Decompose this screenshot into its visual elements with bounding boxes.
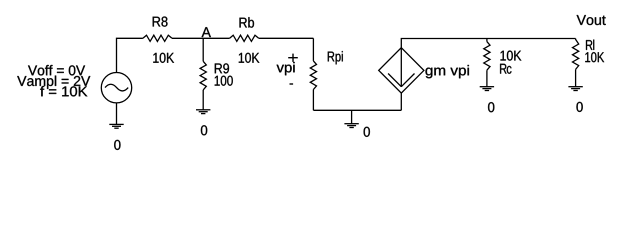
wire: G1 top up and right along top rail to Rl bbox=[401, 39, 575, 48]
resistor Rl bbox=[573, 39, 579, 70]
ground (below Rl) bbox=[568, 87, 582, 91]
wire: Rpi top lead bbox=[312, 38, 314, 61]
wire: node A down to R9 bbox=[202, 38, 204, 61]
wire: bottom rail Rpi to G1 bbox=[313, 109, 401, 111]
resistor Rb bbox=[230, 35, 259, 41]
ground (bottom rail) bbox=[344, 110, 358, 127]
label Rpi bbox=[328, 51, 343, 64]
value 10K (Rb) bbox=[239, 53, 260, 63]
voltage source V1 (sine source) bbox=[101, 73, 131, 103]
polarity label - (vpi) bbox=[290, 83, 294, 85]
wire: R9 to ground bbox=[202, 90, 204, 110]
net label 0 (Rc ground) bbox=[488, 102, 494, 112]
ground (below source V1) bbox=[109, 124, 123, 128]
node label vpi bbox=[277, 62, 295, 75]
label Rl bbox=[586, 40, 594, 50]
resistor Rpi bbox=[310, 61, 316, 90]
net label 0 (source ground) bbox=[114, 140, 120, 150]
resistor R9 bbox=[200, 61, 206, 90]
label R9 bbox=[215, 63, 229, 73]
resistor Rc bbox=[484, 42, 490, 71]
value 10K (R8) bbox=[153, 53, 174, 63]
value 10K (Rc) bbox=[501, 51, 522, 61]
label Rb bbox=[240, 17, 255, 27]
net label 0 (bottom rail ground) bbox=[364, 127, 370, 137]
node label Vout bbox=[577, 15, 606, 25]
wire: Rpi bottom lead to bottom rail bbox=[312, 90, 314, 111]
wire: Rc top lead bbox=[486, 39, 488, 42]
wire: Rc bottom lead to ground bbox=[486, 70, 488, 87]
label R8 bbox=[153, 17, 168, 27]
wire: R8 to Rb through node A bbox=[172, 37, 230, 39]
wire: G1 bottom to bottom rail bbox=[400, 93, 402, 110]
arrow inside G1 bbox=[388, 48, 414, 87]
value label gm vpi bbox=[426, 65, 469, 78]
polarity label + (vpi) bbox=[288, 54, 298, 62]
resistor R8 bbox=[143, 35, 172, 41]
net label 0 (R9 ground) bbox=[201, 125, 207, 135]
wire: source bottom down to ground bbox=[116, 103, 118, 125]
node A bbox=[202, 27, 211, 37]
wire: source top up and right to R8 bbox=[117, 38, 143, 72]
value label V1 line 3: f = 10K bbox=[40, 86, 87, 96]
wire: Rb to Rpi top bbox=[259, 37, 314, 39]
wire: Rl bottom lead to ground bbox=[575, 69, 577, 86]
ground (below R9) bbox=[196, 110, 210, 114]
net label 0 (Rl ground) bbox=[576, 102, 582, 112]
value 10K (Rl) bbox=[585, 52, 604, 62]
value 100 (R9) bbox=[215, 76, 233, 86]
dependent current source G1 (diamond) bbox=[379, 48, 424, 93]
ground (below Rc) bbox=[480, 87, 494, 91]
value label V1 line 2: Vampl = 2V bbox=[17, 76, 90, 89]
label Rc bbox=[500, 64, 511, 74]
value label V1 line 1: Voff = 0V bbox=[28, 65, 85, 75]
